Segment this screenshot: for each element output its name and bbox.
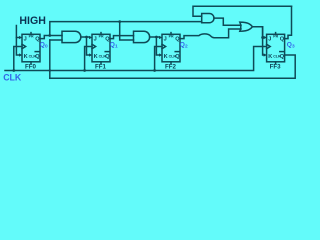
wire Q0 riser and top bus to gate G3 bbox=[50, 22, 202, 36]
wire Q3 feedback top line into G3 upper input bbox=[193, 6, 292, 16]
pin arrow J0 bbox=[19, 36, 22, 39]
pin clock triangle FF1 bbox=[92, 44, 96, 48]
wire Q0 drop from bus to G2 lower input bbox=[120, 22, 134, 40]
wire G2 output to J2 bbox=[150, 36, 160, 38]
wire clock riser FF0 bbox=[14, 47, 22, 71]
wire clock riser FF1 bbox=[85, 47, 92, 71]
and-gate G3 bbox=[202, 14, 214, 23]
pin stub CLR FF1 bbox=[100, 62, 102, 64]
wire G3 output step down to G4 upper input bbox=[214, 18, 241, 25]
wire Q3 output jog up to feedback riser bbox=[285, 6, 292, 38]
wire Q1 output jog to G2 bbox=[110, 36, 134, 39]
wire G1 output to J1 bbox=[81, 36, 90, 38]
wire HIGH vertical feed to J0/K0 bbox=[16, 26, 19, 56]
svg-text:K: K bbox=[268, 54, 272, 60]
wire Q0 output jog bbox=[40, 36, 62, 39]
svg-text:J: J bbox=[24, 37, 27, 43]
pin arrow K2 bbox=[159, 53, 162, 56]
or-gate G4 bbox=[240, 22, 253, 31]
svg-text:HIGH: HIGH bbox=[19, 15, 45, 27]
node crossing blob Q3bar riser x CLK bus bbox=[49, 69, 51, 71]
svg-text:FF0: FF0 bbox=[25, 64, 37, 71]
wire K3 feed bbox=[263, 27, 265, 55]
and-gate G2 bbox=[134, 31, 150, 42]
pin arrow J1 bbox=[89, 36, 92, 39]
wire K2 feed bbox=[156, 37, 159, 55]
svg-text:J: J bbox=[94, 37, 97, 43]
svg-text:K: K bbox=[94, 54, 98, 60]
node clock riser dot FF1 bbox=[83, 69, 86, 72]
svg-text:FF3: FF3 bbox=[270, 64, 282, 71]
svg-text:Q: Q bbox=[175, 54, 180, 60]
pin clock triangle FF0 bbox=[22, 44, 26, 48]
pin clock triangle FF3 bbox=[267, 44, 271, 48]
flip-flop FF0 box bbox=[22, 34, 40, 62]
wire Q2 output jog with crossover bump to G4 bbox=[180, 29, 241, 39]
pin arrow K1 bbox=[89, 53, 92, 56]
svg-text:PR: PR bbox=[169, 35, 174, 39]
flip-flop FF1 box bbox=[92, 34, 110, 62]
pin arrow J2 bbox=[159, 36, 162, 39]
pin stub PR FF2 bbox=[170, 33, 172, 35]
node G1 output dot bbox=[85, 36, 88, 39]
pin stub CLR FF0 bbox=[30, 62, 32, 64]
pin stub PR FF1 bbox=[100, 33, 102, 35]
svg-text:Q: Q bbox=[35, 54, 40, 60]
svg-text:PR: PR bbox=[99, 35, 104, 39]
node G2 output dot bbox=[155, 36, 158, 39]
flip-flop FF2 box bbox=[162, 34, 180, 62]
wire Q3bar riser (bottom line up to G1) bbox=[49, 40, 51, 78]
svg-text:K: K bbox=[164, 54, 168, 60]
node bus junction dot bbox=[118, 20, 121, 23]
svg-text:J: J bbox=[164, 37, 167, 43]
wire K1 feed bbox=[87, 37, 90, 55]
pin clock triangle FF2 bbox=[162, 44, 166, 48]
wire Q3bar output down to bottom feedback line bbox=[50, 55, 295, 78]
svg-text:J: J bbox=[268, 37, 271, 43]
pin arrow K0 bbox=[19, 53, 22, 56]
svg-text:PR: PR bbox=[273, 35, 278, 39]
svg-text:Q: Q bbox=[280, 37, 285, 43]
node clock riser dot FF2 bbox=[153, 69, 156, 72]
node J3 dot bbox=[261, 36, 264, 39]
wire clock riser FF2 bbox=[155, 47, 162, 71]
wire J0 stub bbox=[16, 37, 19, 39]
svg-text:PR: PR bbox=[29, 35, 34, 39]
wire CLK bus with riser to FF3 clock bbox=[5, 47, 267, 71]
pin arrow K3 bbox=[264, 53, 267, 56]
pin stub PR FF3 bbox=[275, 33, 277, 35]
node Q0 junction dot bbox=[48, 34, 51, 37]
and-gate G1 bbox=[62, 31, 81, 42]
pin stub CLR FF2 bbox=[170, 62, 172, 64]
wire G4 output to J3 bbox=[252, 27, 262, 37]
svg-text:Q: Q bbox=[105, 54, 110, 60]
svg-text:K: K bbox=[24, 54, 28, 60]
svg-text:FF1: FF1 bbox=[95, 64, 107, 71]
pin arrow J3 bbox=[264, 36, 267, 39]
wire G1 lower input from Q3bar riser bbox=[50, 39, 62, 41]
pin stub PR FF0 bbox=[30, 33, 32, 35]
node clock riser dot FF0 bbox=[12, 69, 15, 72]
svg-text:FF2: FF2 bbox=[165, 64, 177, 71]
svg-text:CLK: CLK bbox=[3, 72, 22, 82]
pin stub CLR FF3 bbox=[275, 62, 277, 64]
flip-flop FF3 box bbox=[267, 34, 285, 62]
